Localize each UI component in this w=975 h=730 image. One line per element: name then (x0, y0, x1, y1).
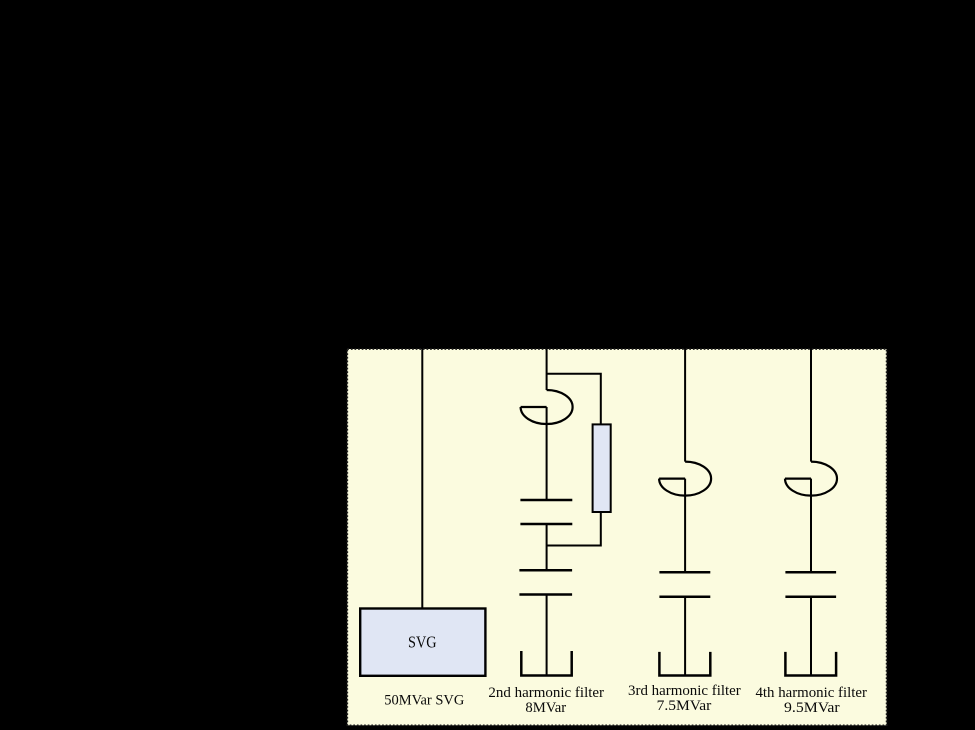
wire W3: bus drop to reactor L3 (684, 349, 686, 462)
svg-text:7.5MVar: 7.5MVar (657, 698, 712, 714)
wire W2a: reactor to capacitor C2a (546, 407, 548, 500)
wire W2r2: damping resistor bottom to main branch (547, 512, 601, 546)
wire W3a: reactor to capacitor C3 (684, 479, 686, 573)
svg-text:3rd harmonic filter: 3rd harmonic filter (628, 683, 741, 699)
svg-text:SVG: SVG (408, 633, 437, 652)
SVG converter unit U1 (360, 609, 485, 676)
svg-text:9.5MVar: 9.5MVar (784, 700, 840, 716)
wire W2r1: tap to damping resistor top (547, 374, 601, 425)
wire W2: bus drop to reactor L2 (546, 349, 548, 390)
wire W1: bus drop to SVG unit (421, 349, 423, 608)
wire W3b: C3 to earth bracket (684, 597, 686, 676)
enclosure: filter yard panel (dotted border) (347, 349, 886, 725)
svg-text:8MVar: 8MVar (525, 700, 566, 716)
capacitor C2b (519, 570, 572, 594)
wire W4: bus drop to reactor L4 (810, 349, 812, 462)
wire W2c: C2b to earth bracket (546, 595, 548, 676)
wire W2b: C2a to C2b with damping tap (546, 524, 548, 570)
reactor L3 (3rd filter) (659, 462, 711, 496)
svg-text:50MVar SVG: 50MVar SVG (384, 693, 464, 709)
capacitor C3 (659, 572, 710, 597)
wire W4a: reactor to capacitor C4 (810, 479, 812, 573)
svg-text:4th harmonic filter: 4th harmonic filter (756, 685, 867, 701)
earth bracket E4 (785, 652, 836, 676)
earth bracket E2 (521, 651, 571, 676)
reactor L4 (4th filter) (785, 462, 837, 496)
svg-text:2nd harmonic filter: 2nd harmonic filter (488, 685, 604, 701)
earth bracket E3 (659, 652, 710, 676)
reactor L2 (2nd filter) (521, 390, 573, 424)
capacitor C4 (785, 572, 836, 597)
resistor R2 (damping) (593, 424, 611, 512)
wire W4b: C4 to earth bracket (810, 597, 812, 676)
capacitor C2a (520, 500, 572, 524)
